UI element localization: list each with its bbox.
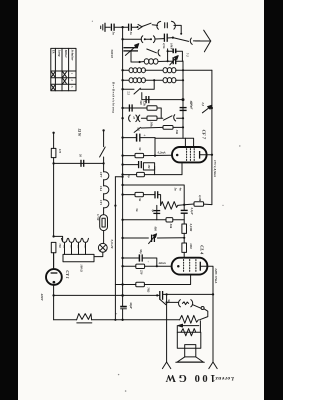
voice coil	[185, 345, 196, 357]
oscillator coil	[144, 59, 158, 64]
grid bus px183	[182, 61, 184, 138]
svg-text:0,1M0: 0,1M0	[189, 224, 193, 232]
X marks	[51, 72, 66, 90]
variable capacitor 500/10	[123, 48, 138, 51]
underline	[77, 322, 92, 324]
wire	[177, 117, 183, 119]
wire	[123, 137, 136, 139]
primary zigzag	[181, 329, 196, 336]
wire	[157, 108, 161, 118]
wire	[123, 164, 138, 166]
node	[121, 117, 123, 119]
grid dashes	[184, 260, 196, 274]
svg-text:2n: 2n	[129, 31, 133, 35]
node	[121, 107, 123, 109]
scan specks	[92, 21, 241, 392]
node	[139, 61, 141, 63]
node	[121, 136, 123, 138]
node	[156, 294, 158, 296]
wire	[103, 157, 105, 163]
wire	[103, 163, 105, 214]
resistor 30k	[163, 126, 173, 130]
wire turning down	[174, 25, 181, 33]
capacitor	[155, 191, 158, 198]
wire padder row	[168, 51, 183, 61]
svg-text:0,2mA: 0,2mA	[158, 150, 166, 154]
chassis foot right	[209, 362, 217, 369]
anode bar	[199, 262, 201, 271]
heater return wire	[114, 177, 116, 320]
node	[121, 294, 124, 297]
node	[166, 301, 168, 303]
svg-text:500: 500	[139, 100, 143, 105]
trimmer arrow	[170, 56, 178, 65]
wire	[123, 257, 139, 259]
svg-text:7-2: 7-2	[186, 53, 190, 57]
hum resistor zigzag	[77, 314, 92, 320]
node	[121, 193, 123, 195]
node	[52, 162, 54, 164]
svg-text:CL4: CL4	[99, 186, 103, 192]
cathode dot	[177, 265, 180, 268]
node	[121, 88, 123, 90]
svg-text:220: 220	[139, 269, 143, 275]
wire	[152, 24, 157, 27]
node	[182, 79, 184, 81]
wire from gang to osc coil	[131, 51, 140, 62]
node	[103, 162, 105, 164]
wire HT bus corner to resistor	[204, 203, 212, 206]
wire screen row	[123, 219, 166, 221]
anode bar	[199, 151, 201, 159]
svg-text:5n: 5n	[138, 198, 142, 201]
svg-text:1M: 1M	[147, 164, 151, 168]
tube CF7 envelope	[172, 147, 207, 162]
selector plug	[54, 236, 63, 240]
node heavy	[182, 98, 185, 101]
svg-text:CF 7: CF 7	[202, 130, 207, 140]
coil L1	[129, 68, 145, 73]
node	[211, 107, 213, 109]
svg-text:50k: 50k	[150, 122, 154, 127]
svg-text:CY1: CY1	[99, 200, 103, 206]
node	[121, 79, 123, 81]
svg-text:7,5: 7,5	[127, 91, 131, 95]
wire	[103, 231, 105, 244]
wire	[183, 205, 185, 224]
wire B+ left	[54, 294, 160, 296]
wire	[200, 309, 208, 320]
capacitor 5n	[111, 24, 114, 31]
svg-text:0,3M: 0,3M	[198, 195, 202, 202]
svg-text:CF7: CF7	[99, 172, 103, 178]
contact arc	[158, 50, 160, 57]
svg-text:30k: 30k	[175, 129, 179, 135]
resistor 50k	[147, 116, 157, 120]
svg-text:1150: 1150	[189, 243, 193, 249]
wire	[115, 176, 122, 178]
fuse lamp	[157, 21, 175, 29]
resistor 50k	[166, 218, 173, 222]
node	[154, 155, 156, 157]
wire output left	[166, 294, 168, 362]
svg-text:5n: 5n	[112, 32, 116, 35]
cathode dot	[176, 154, 179, 157]
resistor 50	[135, 153, 144, 157]
plug arrow	[137, 24, 142, 29]
wire cathode row	[123, 265, 136, 267]
wire corner to zigzag	[158, 195, 161, 206]
wire	[53, 253, 55, 269]
node	[183, 204, 185, 206]
svg-text:4n: 4n	[179, 187, 183, 191]
svg-text:1: 1	[70, 73, 74, 75]
padder capacitor	[173, 49, 176, 54]
wire	[167, 37, 173, 39]
wire	[143, 194, 154, 196]
svg-text:5n: 5n	[173, 188, 177, 191]
heater CL4	[104, 186, 109, 194]
svg-text:880: 880	[154, 227, 158, 232]
svg-text:Schalter: Schalter	[71, 50, 75, 62]
coil L2	[163, 68, 176, 73]
title Lorenz 100 GW	[165, 372, 235, 383]
node	[121, 184, 123, 186]
tone capacitor	[179, 300, 193, 307]
wire B+ right	[163, 293, 213, 295]
capacitor 5n coupling	[160, 291, 163, 300]
output transformer box	[177, 332, 201, 348]
resistor 1150 vertical	[182, 243, 187, 252]
capacitor bars	[153, 211, 160, 214]
node	[121, 237, 123, 239]
wire to right bus	[176, 69, 212, 71]
wire	[178, 204, 184, 207]
svg-text:70Ω: 70Ω	[147, 287, 151, 293]
svg-text:750: 750	[58, 243, 62, 248]
switch blade	[163, 116, 172, 120]
wire	[141, 117, 147, 119]
svg-text:500/10: 500/10	[110, 50, 114, 59]
svg-text:5n: 5n	[135, 208, 139, 211]
speaker cone	[177, 357, 203, 362]
cathode dot	[53, 281, 56, 284]
scan black band right	[264, 0, 283, 400]
node	[121, 283, 123, 285]
svg-text:42mA: 42mA	[157, 261, 165, 265]
wire	[122, 295, 124, 319]
node	[121, 265, 123, 267]
switch blade	[173, 38, 189, 42]
wire to CL4	[183, 252, 185, 257]
table frame	[51, 48, 76, 90]
wire AVC long	[123, 185, 185, 205]
wire	[94, 252, 103, 258]
svg-text:U 50: U 50	[96, 214, 100, 221]
node	[121, 219, 123, 221]
contact arc	[190, 38, 192, 45]
node	[212, 293, 214, 295]
node	[211, 154, 213, 156]
wire	[123, 155, 135, 157]
switch blade	[134, 88, 140, 94]
capacitor 5n in row	[146, 96, 149, 103]
node	[114, 319, 116, 321]
electrolytic capacitor +	[137, 134, 140, 142]
switch contact	[201, 307, 204, 310]
node	[182, 69, 184, 71]
anode link	[200, 265, 207, 267]
node	[122, 176, 124, 178]
wire	[123, 174, 137, 176]
wire main bus	[122, 27, 124, 295]
wire anode down	[207, 266, 213, 362]
wire to transformer	[199, 321, 201, 332]
wire	[140, 137, 155, 139]
svg-text:2,5: 2,5	[201, 101, 205, 106]
resistor 0,3M	[194, 202, 204, 206]
socket stubs	[65, 243, 86, 255]
wire	[145, 69, 163, 71]
wire corner	[154, 166, 156, 174]
trimmer capacitor	[173, 57, 176, 64]
svg-text:50μ: 50μ	[139, 249, 143, 254]
resistor	[135, 192, 143, 196]
node	[153, 79, 155, 81]
wire	[53, 285, 55, 320]
antenna	[196, 30, 211, 52]
potentiometer zigzag	[161, 202, 178, 210]
capacitor 500	[129, 104, 132, 111]
wire	[53, 253, 55, 268]
coil L3	[129, 78, 145, 83]
node	[156, 265, 158, 267]
AVC pot arrow	[134, 127, 140, 132]
mains switch blade	[100, 147, 106, 157]
node	[121, 257, 123, 259]
svg-text:53 W: 53 W	[77, 129, 81, 137]
svg-text:100 GW: 100 GW	[165, 372, 216, 383]
svg-text:100 Ω: 100 Ω	[80, 264, 84, 272]
chassis foot left	[162, 362, 170, 369]
wire long to tube bottom	[144, 174, 182, 176]
ballast U50	[100, 215, 108, 231]
wire grid feed	[154, 138, 156, 156]
wire anode to HT bus	[207, 154, 212, 156]
trimmer arrow	[149, 234, 157, 244]
tap arrow	[178, 324, 199, 327]
svg-text:3: 3	[70, 86, 74, 88]
resistor	[137, 172, 145, 176]
resistor 220	[136, 264, 145, 268]
anode plate	[51, 272, 58, 274]
resistor 175	[51, 148, 56, 157]
dial lamp	[98, 243, 107, 252]
heater CY1	[104, 200, 109, 208]
wire	[123, 107, 147, 109]
wire grid2 entry	[184, 138, 186, 147]
resistor 750	[51, 242, 56, 252]
node	[166, 293, 168, 295]
potentiometer arrow on HT bus	[202, 105, 211, 113]
svg-text:+: +	[142, 134, 146, 136]
wire	[155, 38, 163, 40]
node	[172, 37, 174, 39]
svg-text:0,1μF: 0,1μF	[190, 208, 194, 215]
tapped resistor 100	[63, 254, 94, 261]
svg-text:0,1A 4W: 0,1A 4W	[110, 240, 113, 250]
wire tube bottom	[181, 162, 183, 174]
resistor 1M boxed	[143, 163, 154, 170]
node	[121, 173, 123, 175]
resistor 70	[136, 282, 145, 286]
svg-text:2,5n: 2,5n	[162, 42, 166, 49]
node	[182, 117, 184, 119]
tube CY1	[46, 269, 62, 285]
capacitor 100pF on grid bus	[180, 108, 187, 111]
svg-text:Lorenz: Lorenz	[215, 375, 235, 381]
wire down from L3 tap	[140, 80, 154, 89]
tone switch blade	[192, 305, 200, 309]
wire	[144, 154, 172, 156]
svg-text:Mittel: Mittel	[64, 49, 68, 58]
capacitor 0,1uF	[181, 210, 188, 213]
tone branch	[167, 301, 179, 303]
grid wire row	[123, 237, 185, 239]
node	[121, 163, 123, 165]
output zigzag on rail	[180, 315, 199, 323]
wire	[184, 203, 194, 206]
heater feed wire	[54, 162, 104, 164]
wire	[114, 26, 128, 28]
svg-text:Lang: Lang	[58, 49, 62, 57]
svg-text:1μ: 1μ	[127, 175, 130, 178]
jack pair	[141, 36, 155, 43]
wire	[142, 258, 157, 266]
wire	[145, 265, 172, 267]
svg-text:220V 37mA: 220V 37mA	[214, 267, 218, 283]
resistor 1,5k	[147, 106, 157, 110]
cone base	[176, 361, 205, 363]
node	[52, 294, 54, 296]
wire	[53, 133, 55, 149]
capacitor 2n	[129, 24, 132, 31]
node	[114, 205, 116, 207]
capacitor 2,5n 10kV	[164, 34, 167, 42]
wire	[157, 117, 163, 119]
node	[121, 154, 123, 156]
wire	[173, 126, 183, 128]
table columns	[55, 48, 68, 90]
node	[183, 237, 185, 239]
node A (bus top)	[121, 26, 123, 28]
AVC row wire	[141, 126, 163, 129]
mains terminal 2	[102, 129, 104, 131]
svg-text:CL 4: CL 4	[199, 245, 204, 255]
electrolytic 32uF	[120, 307, 127, 309]
wire	[176, 326, 178, 333]
wire	[145, 79, 163, 81]
wire	[193, 40, 200, 42]
wire	[123, 194, 135, 196]
wire to bus px183	[176, 79, 183, 81]
wire to CF7 grid	[155, 138, 194, 147]
contact arc	[173, 115, 175, 122]
wire	[123, 69, 129, 71]
mains terminal	[52, 132, 54, 134]
tube CL4 envelope	[172, 258, 208, 275]
wire grid2 row	[115, 284, 135, 286]
svg-text:175 V, 8,5mA: 175 V, 8,5mA	[213, 160, 217, 177]
svg-text:+: +	[146, 261, 150, 263]
svg-text:220V: 220V	[40, 293, 44, 302]
wire	[173, 219, 184, 221]
wire from bus	[123, 88, 134, 90]
switch rail	[167, 49, 169, 61]
node	[52, 235, 54, 237]
node	[121, 69, 123, 71]
anode link	[200, 154, 207, 156]
node	[182, 126, 184, 128]
svg-text:100pF: 100pF	[189, 101, 193, 109]
wire right HT bus	[211, 70, 213, 204]
svg-text:1,5k: 1,5k	[143, 101, 147, 107]
switch blade	[142, 23, 151, 26]
ground	[101, 23, 111, 31]
trimmer capacitor	[152, 235, 155, 242]
capacitor 50	[81, 160, 84, 167]
svg-text:Dr=Drehrichtung: Dr=Drehrichtung	[111, 81, 115, 113]
wire row 2	[123, 79, 129, 81]
node	[121, 38, 123, 40]
wire from bus	[123, 38, 142, 40]
resistor 0,1M0 vertical	[182, 224, 187, 233]
wire corner	[142, 93, 183, 100]
band switch blade	[147, 49, 157, 53]
svg-text:175: 175	[58, 149, 62, 154]
heater CF7	[104, 172, 109, 180]
table rows	[51, 71, 76, 84]
wire	[131, 26, 137, 28]
wire to bus	[176, 61, 183, 70]
capacitor	[139, 161, 142, 168]
wire	[144, 275, 190, 285]
wire	[53, 158, 55, 237]
svg-text:TA: TA	[51, 50, 55, 54]
electrolytic 50u	[139, 254, 142, 261]
svg-text:2: 2	[70, 79, 74, 81]
svg-text:1,5: 1,5	[136, 127, 140, 131]
svg-text:CY 1: CY 1	[65, 270, 70, 278]
wire	[103, 130, 105, 146]
wire	[183, 233, 185, 243]
scan black band left	[0, 0, 18, 400]
grid dashes	[187, 149, 195, 161]
svg-text:32μF: 32μF	[129, 301, 133, 309]
wiper arrow	[125, 44, 138, 56]
coil L4	[163, 78, 176, 83]
bottom rail	[54, 319, 180, 321]
switch contacts 25	[129, 115, 140, 122]
wire cap branch	[156, 205, 158, 219]
cap arrow	[160, 300, 166, 305]
svg-text:220: 220	[83, 244, 86, 250]
socket contacts	[62, 238, 89, 242]
svg-text:50k: 50k	[169, 224, 173, 229]
node	[121, 319, 123, 321]
